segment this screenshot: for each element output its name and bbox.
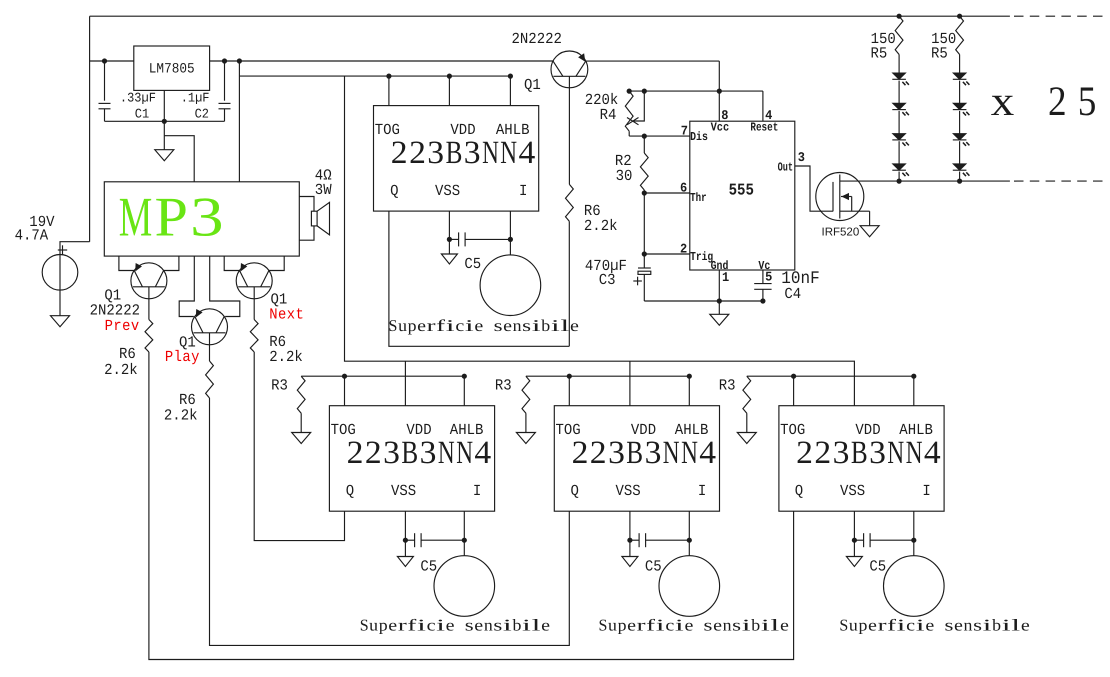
transistor Q1 Play 2N2222: [192, 309, 228, 345]
svg-text:i: i: [551, 316, 561, 335]
wire Q1 base to R6: [568, 88, 570, 185]
R4 wiper arm: [634, 91, 644, 121]
svg-text:2: 2: [814, 435, 831, 471]
wire MP3 +5V drop: [238, 61, 240, 182]
svg-text:e: e: [388, 615, 397, 634]
transistor Q1 Prev 2N2222: [131, 263, 167, 299]
svg-text:e: e: [954, 615, 963, 634]
svg-text:Play: Play: [165, 349, 200, 367]
svg-text:e: e: [925, 615, 934, 634]
svg-text:3: 3: [833, 435, 850, 471]
svg-text:r: r: [878, 615, 888, 634]
svg-text:3: 3: [869, 435, 886, 471]
wire +19V rail dashed continuation: [1014, 15, 1104, 17]
wire U3 VSS stem: [448, 211, 450, 254]
svg-text:e: e: [780, 615, 789, 634]
svg-text:4: 4: [699, 435, 716, 471]
svg-text:i: i: [417, 615, 427, 634]
svg-text:I: I: [922, 483, 930, 501]
net TOG/AHLB bus U5: [526, 375, 689, 377]
junction U4 TOG: [342, 374, 347, 379]
capacitor C1 .33uF: [104, 61, 106, 101]
svg-text:Vcc: Vcc: [711, 122, 730, 135]
svg-text:b: b: [541, 316, 550, 335]
svg-text:2: 2: [590, 435, 607, 471]
junction LED string string1 top: [897, 14, 902, 19]
trimmer R4 220k: [625, 91, 633, 131]
svg-text:2.2k: 2.2k: [164, 408, 198, 426]
net TOG/AHLB bus U4: [301, 375, 464, 377]
svg-text:Q: Q: [346, 483, 354, 501]
svg-text:l: l: [532, 615, 542, 634]
LED D4 (string2): [953, 164, 966, 170]
wire LED bottom rail dashed: [1014, 180, 1104, 182]
svg-text:s: s: [522, 316, 531, 335]
svg-text:C5: C5: [869, 559, 886, 577]
touch IC U5 223B3NN4: [554, 406, 719, 512]
wire U3 AHLB drop: [509, 76, 511, 106]
svg-text:R5: R5: [931, 45, 948, 63]
wire U3 VDD drop: [448, 76, 450, 106]
svg-text:555: 555: [729, 181, 754, 200]
svg-text:i: i: [446, 316, 456, 335]
svg-text:S: S: [839, 615, 848, 634]
junction U3 AHLB: [508, 74, 513, 79]
wire U5 TOG drop: [568, 376, 570, 406]
wire ground stem: [718, 301, 720, 314]
svg-text:r: r: [398, 615, 408, 634]
svg-text:e: e: [570, 316, 579, 335]
svg-text:30: 30: [616, 168, 633, 186]
svg-text:4: 4: [924, 435, 941, 471]
mosfet Q2 IRF520: [816, 173, 864, 221]
svg-text:f: f: [407, 615, 417, 634]
svg-text:p: p: [618, 615, 627, 634]
wire R6 to U3 Q routing: [568, 221, 570, 346]
svg-text:c: c: [665, 615, 674, 634]
capacitor C5 of U5: [630, 539, 639, 541]
svg-text:1: 1: [722, 270, 729, 285]
wire U4 AHLB drop: [463, 376, 465, 406]
ground below source V1: [51, 316, 70, 327]
junction R4 top: [627, 89, 632, 94]
svg-text:2.2k: 2.2k: [584, 218, 618, 236]
junction regulator ground: [162, 119, 167, 124]
wire MP3 pin to Q1-Next collector: [269, 256, 284, 270]
svg-text:l: l: [770, 615, 780, 634]
resistor R6 oscillator 2.2k: [566, 184, 574, 221]
svg-text:.1µF: .1µF: [181, 91, 210, 106]
svg-text:n: n: [484, 615, 493, 634]
svg-text:e: e: [503, 316, 512, 335]
svg-text:s: s: [493, 615, 502, 634]
svg-text:3: 3: [427, 135, 444, 171]
junction U5 TOG: [567, 374, 572, 379]
svg-text:f: f: [887, 615, 897, 634]
svg-text:i: i: [465, 316, 475, 335]
svg-text:N: N: [681, 435, 698, 471]
wire source to ground: [59, 290, 61, 316]
wire U5 I pin stem: [688, 511, 690, 556]
svg-text:i: i: [897, 615, 907, 634]
touch IC U4 223B3NN4: [329, 406, 494, 512]
svg-text:s: s: [465, 615, 474, 634]
ground below R3 (U5): [516, 433, 535, 444]
svg-text:S: S: [599, 615, 608, 634]
junction U3 TOG: [386, 74, 391, 79]
wire LED link (string1): [898, 81, 900, 104]
svg-text:n: n: [723, 615, 732, 634]
svg-text:6: 6: [680, 181, 687, 196]
junction U6 TOG: [791, 374, 796, 379]
svg-text:Q: Q: [795, 483, 803, 501]
wire U4 I pin stem: [463, 511, 465, 556]
junction U5 AHLB: [687, 374, 692, 379]
svg-text:e: e: [868, 615, 877, 634]
wire U6 TOG drop: [793, 376, 795, 406]
ground below C5 of U6: [846, 557, 862, 567]
wire R5 to LEDs (string2): [959, 55, 961, 74]
junction U3 C5 right: [508, 237, 513, 242]
svg-text:i: i: [522, 615, 532, 634]
svg-text:R3: R3: [719, 377, 736, 395]
wire 555 reset drop: [762, 91, 764, 121]
wire R2 top stem: [643, 136, 645, 153]
svg-text:b: b: [751, 615, 760, 634]
svg-text:e: e: [446, 615, 455, 634]
junction 555 Vcc: [717, 89, 722, 94]
resistor R6 Play 2.2k: [206, 361, 214, 398]
capacitor C4 10nF: [762, 270, 764, 284]
svg-text:s: s: [704, 615, 713, 634]
svg-text:2: 2: [391, 135, 408, 171]
label C3 plus: [633, 280, 642, 282]
wire LED link (string2): [959, 111, 961, 134]
svg-text:s: s: [945, 615, 954, 634]
svg-text:Reset: Reset: [750, 122, 778, 135]
wire LM7805 input: [90, 60, 134, 62]
svg-text:LM7805: LM7805: [149, 60, 195, 77]
resistor R5 150 (string1): [895, 16, 903, 54]
svg-text:Q: Q: [390, 183, 398, 201]
svg-text:x: x: [991, 79, 1015, 125]
svg-text:I: I: [698, 483, 706, 501]
svg-text:3: 3: [383, 435, 400, 471]
net +5V bus to U3: [239, 75, 510, 77]
label V1 plus: [58, 249, 67, 251]
svg-text:C5: C5: [645, 559, 662, 577]
svg-text:e: e: [713, 615, 722, 634]
svg-text:VSS: VSS: [435, 183, 460, 201]
svg-text:p: p: [379, 615, 388, 634]
svg-text:3: 3: [190, 186, 224, 248]
wire LED link (string1): [898, 141, 900, 164]
svg-text:l: l: [560, 316, 570, 335]
svg-text:i: i: [983, 615, 993, 634]
svg-text:2: 2: [680, 242, 687, 257]
ground below C5 of U3: [441, 254, 457, 264]
svg-text:u: u: [849, 615, 858, 634]
wire MP3 pin to Q1-Prev emitter: [119, 256, 134, 270]
wire to source V1: [60, 242, 90, 255]
svg-text:VSS: VSS: [840, 483, 865, 501]
svg-text:2: 2: [572, 435, 589, 471]
timer U1 555: [690, 121, 795, 270]
net +5V wire from regulator: [210, 60, 553, 62]
junction U5 C5 left: [627, 538, 632, 543]
svg-text:2.2k: 2.2k: [104, 362, 138, 380]
wire U5 VDD drop: [629, 361, 631, 406]
wire Q1-Play base to U5 Q: [210, 398, 570, 645]
svg-text:n: n: [513, 316, 522, 335]
touch IC U3 223B3NN4: [374, 106, 539, 212]
ground below R3 (U6): [737, 433, 756, 444]
module MP3 player: [104, 182, 299, 256]
svg-text:4: 4: [474, 435, 491, 471]
svg-text:2N2222: 2N2222: [512, 31, 562, 49]
wire R5 to LEDs (string1): [898, 55, 900, 74]
net +19V top rail wire: [90, 15, 1010, 17]
wire R2 to Thr: [643, 190, 645, 254]
svg-text:i: i: [916, 615, 926, 634]
svg-text:p: p: [859, 615, 868, 634]
wire ground jog to MP3: [164, 136, 194, 182]
svg-text:M: M: [119, 186, 153, 248]
svg-text:B: B: [626, 435, 643, 471]
svg-text:N: N: [906, 435, 923, 471]
wire +5V drop to bottom rail: [345, 76, 855, 406]
junction Gnd: [717, 298, 722, 303]
wire 19V input vertical: [89, 16, 91, 242]
touch surface of U4: [434, 556, 495, 617]
wire MP3 pin to Q1-Play emitter: [179, 256, 194, 316]
svg-text:R6: R6: [119, 346, 136, 364]
svg-text:7: 7: [681, 124, 688, 139]
svg-text:r: r: [637, 615, 647, 634]
svg-text:c: c: [427, 615, 436, 634]
junction LED string string2 bottom: [957, 179, 962, 184]
svg-text:b: b: [992, 615, 1001, 634]
junction LED string string1 bottom: [897, 179, 902, 184]
svg-text:5: 5: [1078, 79, 1097, 125]
LED D3 (string1): [893, 134, 906, 140]
resistor R6 Next 2.2k: [250, 320, 258, 353]
junction U4 AHLB: [462, 374, 467, 379]
ground below mosfet source: [860, 226, 879, 237]
svg-text:C5: C5: [464, 256, 481, 274]
wire 555 Thr: [644, 192, 690, 194]
wire U3 Q routing: [389, 211, 569, 346]
wire LED string string2 to rail: [959, 172, 961, 182]
svg-text:e: e: [474, 316, 483, 335]
junction MP3 +5V feed: [237, 58, 242, 63]
junction U4 C5 left: [403, 538, 408, 543]
wire U5 VSS stem: [629, 511, 631, 556]
svg-text:Q: Q: [571, 483, 579, 501]
svg-text:P: P: [155, 186, 189, 248]
junction U3 VDD: [447, 74, 452, 79]
wire speaker top: [299, 197, 314, 212]
svg-text:B: B: [851, 435, 868, 471]
svg-text:B: B: [446, 135, 463, 171]
wire MP3 pin to Q1-Next emitter: [224, 256, 239, 270]
wire speaker bottom: [299, 226, 314, 240]
ground below C5 of U4: [397, 557, 413, 567]
resistor R3 (U6): [743, 376, 751, 413]
LED D1 (string2): [953, 73, 966, 79]
wire 555 Trig: [644, 253, 690, 255]
wire U4 VDD drop: [404, 361, 406, 406]
svg-text:f: f: [436, 316, 446, 335]
wire U6 VSS stem: [853, 511, 855, 556]
svg-text:3: 3: [420, 435, 437, 471]
junction U4 C5 right: [462, 538, 467, 543]
svg-text:4: 4: [519, 135, 536, 171]
svg-text:VSS: VSS: [391, 483, 416, 501]
junction C2: [222, 58, 227, 63]
svg-text:2: 2: [796, 435, 813, 471]
wire Q1-Next base: [253, 299, 255, 320]
LED D4 (string1): [893, 164, 906, 170]
ground below LM7805: [155, 150, 174, 161]
svg-text:N: N: [438, 435, 455, 471]
speaker LS1: [311, 211, 317, 226]
junction C1: [102, 58, 107, 63]
svg-text:C3: C3: [599, 272, 616, 290]
ground below 555: [710, 314, 729, 325]
svg-text:i: i: [742, 615, 752, 634]
junction Trig: [642, 251, 647, 256]
svg-text:R3: R3: [495, 377, 512, 395]
svg-text:N: N: [887, 435, 904, 471]
junction U5 C5 right: [687, 538, 692, 543]
svg-text:e: e: [1021, 615, 1030, 634]
wire MP3 pin to Q1-Play collector: [210, 256, 240, 316]
svg-text:C5: C5: [420, 559, 437, 577]
wire U4 TOG drop: [344, 376, 346, 406]
svg-text:R4: R4: [600, 107, 617, 125]
svg-text:C2: C2: [195, 107, 209, 122]
wire U3 TOG drop: [388, 76, 390, 106]
svg-text:f: f: [646, 615, 656, 634]
ground below R3 (U4): [292, 433, 311, 444]
svg-text:N: N: [456, 435, 473, 471]
svg-text:Dis: Dis: [690, 131, 708, 144]
junction U6 C5 right: [911, 538, 916, 543]
svg-text:i: i: [656, 615, 666, 634]
svg-text:i: i: [1002, 615, 1012, 634]
source V1 19V 4.7A: [42, 254, 78, 290]
svg-text:i: i: [675, 615, 685, 634]
wire LED link (string2): [959, 81, 961, 104]
wire Q1-Play base: [209, 345, 211, 361]
resistor R3 (U5): [522, 376, 530, 413]
touch surface of U5: [659, 556, 720, 617]
svg-text:e: e: [474, 615, 483, 634]
svg-text:s: s: [973, 615, 982, 634]
svg-text:IRF520: IRF520: [822, 227, 860, 239]
svg-text:Out: Out: [778, 162, 793, 175]
wire LED link (string1): [898, 111, 900, 134]
svg-text:u: u: [608, 615, 617, 634]
svg-text:Next: Next: [269, 306, 304, 324]
transistor Q1 Next 2N2222: [236, 263, 272, 299]
svg-text:R3: R3: [271, 377, 288, 395]
svg-text:c: c: [906, 615, 915, 634]
wire Q1-Prev base to U6 Q: [149, 352, 794, 660]
svg-text:i: i: [436, 615, 446, 634]
wire Q1-Next base to U4 Q: [254, 352, 344, 541]
svg-text:3: 3: [645, 435, 662, 471]
svg-text:u: u: [398, 316, 407, 335]
svg-text:e: e: [627, 615, 636, 634]
svg-text:R5: R5: [871, 45, 888, 63]
transistor Q1 oscillator 2N2222: [551, 51, 588, 88]
svg-text:Q1: Q1: [524, 77, 541, 95]
junction R2 top: [642, 134, 647, 139]
svg-text:N: N: [482, 135, 499, 171]
svg-text:5: 5: [765, 270, 772, 285]
capacitor C3 470uF: [643, 254, 645, 268]
touch surface of U3: [480, 255, 541, 316]
wire U4 VSS stem: [404, 511, 406, 556]
svg-text:C4: C4: [784, 286, 801, 304]
wire LED bottom rail: [899, 180, 1010, 182]
wire LED link (string2): [959, 141, 961, 164]
svg-text:c: c: [455, 316, 464, 335]
wire 555 Out: [795, 166, 833, 211]
touch surface of U6: [884, 556, 945, 617]
resistor R2 30: [640, 153, 648, 190]
junction U6 C5 left: [852, 538, 857, 543]
junction U3 C5 left: [447, 237, 452, 242]
capacitor C2 .1uF: [224, 61, 226, 101]
svg-text:4.7A: 4.7A: [15, 227, 49, 245]
LED D2 (string1): [893, 103, 906, 109]
wire R4 top feed: [629, 90, 763, 92]
svg-text:s: s: [732, 615, 741, 634]
capacitor C5 of U6: [854, 539, 863, 541]
junction U6 AHLB: [911, 374, 916, 379]
capacitor C5 of U4: [405, 539, 414, 541]
svg-text:b: b: [513, 615, 522, 634]
svg-text:3: 3: [608, 435, 625, 471]
resistor R6 Prev 2.2k: [145, 320, 153, 353]
LED D3 (string2): [953, 134, 966, 140]
svg-text:e: e: [685, 615, 694, 634]
svg-text:C1: C1: [135, 107, 149, 122]
svg-text:s: s: [494, 316, 503, 335]
svg-text:e: e: [541, 615, 550, 634]
svg-text:N: N: [500, 135, 517, 171]
wire U6 AHLB drop: [913, 376, 915, 406]
ground below C5 of U5: [622, 557, 638, 567]
net TOG/AHLB bus U6: [747, 375, 914, 377]
wire U3 I pin stem: [509, 211, 511, 255]
svg-text:r: r: [427, 316, 437, 335]
LED D1 (string1): [893, 73, 906, 79]
svg-text:Thr: Thr: [690, 192, 707, 205]
wire 555 Gnd pin stem: [718, 270, 720, 301]
wire Q1-Prev base: [148, 299, 150, 320]
svg-text:i: i: [761, 615, 771, 634]
LED D2 (string2): [953, 103, 966, 109]
svg-text:2.2k: 2.2k: [269, 349, 303, 367]
junction Thr: [642, 190, 647, 195]
junction LED string string2 top: [957, 14, 962, 19]
svg-text:N: N: [663, 435, 680, 471]
svg-text:Prev: Prev: [105, 318, 140, 336]
